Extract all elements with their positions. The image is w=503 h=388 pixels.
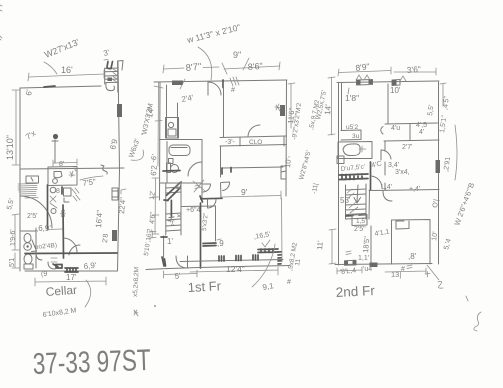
staircase rails <box>166 183 181 235</box>
dark corner marks below closet <box>222 168 231 175</box>
interior wall mid cellar <box>20 168 124 169</box>
dim 12'4" bottom <box>190 267 278 275</box>
small rect bottom wall <box>53 264 62 268</box>
tank oval <box>54 172 62 178</box>
closet row bottom line / bedroom wall <box>384 140 439 141</box>
pointer line to mark <box>425 265 439 280</box>
svg-text:3u: 3u <box>352 133 360 140</box>
svg-text:': ' <box>438 233 439 240</box>
bottom dim segments <box>337 267 426 274</box>
sink triangle <box>32 240 37 252</box>
dark wall top of stairs <box>163 170 180 173</box>
stair hook top <box>107 62 113 69</box>
hatch diagonals right <box>72 188 80 201</box>
dimension 8'7" <box>163 63 227 74</box>
svg-text:1,5: 1,5 <box>356 218 365 225</box>
door mark on top wall <box>44 86 55 87</box>
bottom left wall <box>163 236 165 266</box>
toilet lower <box>24 254 32 264</box>
flourish arc under label <box>198 47 212 80</box>
svg-text:18'5": 18'5" <box>361 236 371 254</box>
hatch groups bottom wall <box>219 255 258 261</box>
bathroom left wall <box>166 142 168 184</box>
right wall <box>438 82 440 264</box>
hall wall segments <box>384 141 386 190</box>
hatch band closet <box>339 174 368 180</box>
svg-text:#: # <box>231 87 235 94</box>
svg-text:4',5: 4',5 <box>416 122 427 129</box>
dim line 7'5 <box>80 176 103 180</box>
door arc hall <box>64 238 77 252</box>
box below stairs <box>352 215 367 226</box>
sink rect <box>168 129 176 136</box>
scribble 4a in box <box>69 168 76 177</box>
small box right of wall <box>64 188 72 196</box>
jamb marks right <box>61 187 63 194</box>
boiler left wall lower <box>47 185 49 229</box>
left room wall <box>341 83 343 131</box>
edge artifact marks left <box>0 5 2 40</box>
window dark rect 1 <box>357 80 373 86</box>
top corner mark <box>118 61 123 71</box>
small door arc left <box>36 253 42 260</box>
boiler room box <box>48 167 77 186</box>
dim 9' interior <box>222 191 281 199</box>
door arc 2 <box>69 245 80 255</box>
stairs diagonal scribbles <box>347 189 358 213</box>
door opening arc bottom <box>48 262 55 269</box>
big door arc <box>20 196 52 228</box>
stairs box second floor <box>346 184 367 219</box>
svg-text:1st Fr: 1st Fr <box>187 278 222 295</box>
svg-text:22'4": 22'4" <box>117 197 127 215</box>
post line under dot <box>52 140 58 163</box>
radiator bar <box>203 243 216 246</box>
right interior dim vertical <box>281 198 284 262</box>
svg-text:13'10": 13'10" <box>5 135 15 160</box>
bathroom partition wall <box>20 228 36 268</box>
top wall <box>337 81 439 83</box>
svg-text:16': 16' <box>61 65 73 75</box>
stair box top right <box>105 61 118 92</box>
svg-text:4'u: 4'u <box>391 125 400 132</box>
bottom door arc <box>176 256 188 268</box>
closet wall vertical <box>215 206 217 241</box>
left dim 12' 4'6 <box>152 178 159 234</box>
center hallway wall upper <box>223 82 225 137</box>
hook mark on wall <box>101 165 107 174</box>
bathroom box <box>338 142 372 159</box>
window recess box left <box>26 176 39 183</box>
window tick bottom <box>51 258 57 262</box>
column dot <box>53 134 58 139</box>
sink box left wall <box>337 156 344 164</box>
bath sink <box>169 159 174 164</box>
bottom right room <box>392 220 431 265</box>
front door arc <box>208 82 221 95</box>
circle fixture below box <box>50 187 56 193</box>
svg-text:2nd Fr: 2nd Fr <box>335 283 375 300</box>
wall below closet <box>222 167 283 168</box>
stove circle <box>168 122 173 127</box>
kitchen counter inner line <box>177 103 179 138</box>
door mark on top wall <box>172 81 183 86</box>
stair rungs <box>346 189 367 215</box>
svg-text:12'4": 12'4" <box>226 264 245 274</box>
closet band top <box>220 136 287 138</box>
bath door arc <box>188 162 202 176</box>
dimension 17' bottom <box>35 277 106 286</box>
window dark box right wall lower <box>112 230 117 241</box>
dimension 8'9" <box>338 67 391 76</box>
right dim ticks top <box>440 83 446 106</box>
svg-text:9": 9" <box>233 50 241 60</box>
star scribble <box>134 310 138 316</box>
window dark rect 2 <box>392 80 400 86</box>
center wall lower segments <box>220 146 223 199</box>
cellar bottom wall <box>25 270 118 272</box>
svg-text:8: 8 <box>56 188 60 195</box>
top wall <box>154 80 287 82</box>
svg-text:'u4: 'u4 <box>363 266 372 273</box>
cellar right wall <box>118 62 120 271</box>
swoosh from 9.1 <box>252 244 275 287</box>
delta marks <box>356 75 406 81</box>
dark blob bottom left wall <box>162 257 166 266</box>
hatched window bottom wall <box>65 268 78 272</box>
window dark rect bottom 2 <box>370 263 378 268</box>
svg-text:1': 1' <box>167 237 173 246</box>
wall under stairs <box>182 205 216 208</box>
center wall lower dark <box>200 203 202 268</box>
svg-text:3'x4,: 3'x4, <box>395 169 410 176</box>
hatched baseboard <box>258 249 278 253</box>
chimney hatch top wall <box>230 77 239 86</box>
hall door 1 leaf and arc <box>203 184 211 192</box>
svg-text:11': 11' <box>315 240 325 251</box>
kitchen appliance box <box>166 118 179 139</box>
svg-text:O'|: O'| <box>432 199 440 209</box>
interior wall top rooms <box>387 84 389 124</box>
bathroom bottom wall <box>160 182 202 184</box>
svg-text:+6"4: +6"4 <box>186 207 200 214</box>
left dim bottom <box>329 229 336 264</box>
svg-text:17': 17' <box>66 273 77 282</box>
dark tick top <box>161 236 167 238</box>
svg-text:13|: 13| <box>391 270 401 279</box>
curve right mid <box>131 150 144 160</box>
shaft hook <box>168 217 174 221</box>
dark marks stairs bottom <box>346 215 366 217</box>
stray dot <box>154 305 156 307</box>
left dim ticks bottom <box>149 231 156 238</box>
svg-text:10'-: 10'- <box>283 155 293 169</box>
window right wall upper <box>280 105 285 116</box>
circle fixture 2 <box>51 209 56 214</box>
svg-text:6,9': 6,9' <box>83 261 97 271</box>
svg-text:Cellar: Cellar <box>45 283 77 299</box>
dimension 16' top <box>28 70 104 81</box>
stairs arrow diagonals <box>167 182 181 200</box>
closet divider <box>409 124 411 141</box>
svg-text:-3'-: -3'- <box>225 139 236 146</box>
svg-text:5'1: 5'1 <box>9 258 16 267</box>
door arc hall <box>371 176 382 188</box>
right dim ticks <box>288 83 295 128</box>
hall bottom wall dark <box>201 197 222 200</box>
svg-text:1,1': 1,1' <box>358 255 369 262</box>
svg-text:10': 10' <box>390 86 401 95</box>
svg-text:3,4': 3,4' <box>388 162 399 169</box>
x scribbles <box>50 196 57 208</box>
svg-text:6'2: 6'2 <box>149 164 159 176</box>
closet band bottom <box>220 145 287 147</box>
window dark right wall <box>436 160 441 173</box>
hash marks bottom <box>346 251 412 269</box>
toilet first floor <box>171 165 179 173</box>
stair dark blob <box>108 78 113 82</box>
swoosh under label <box>44 62 57 74</box>
dimension 8'6" <box>224 62 280 70</box>
bedroom door arc top right <box>248 125 260 136</box>
dark door jamb <box>222 80 224 88</box>
faint curve right <box>455 125 457 180</box>
hall door 2 leaf and arc <box>221 182 230 191</box>
door jog shape in room <box>396 221 409 229</box>
window box right wall mid <box>112 188 118 200</box>
dim 8 above boiler box <box>53 159 77 166</box>
cross mark <box>359 146 366 152</box>
tick right of window <box>121 189 126 194</box>
svg-text:2'8: 2'8 <box>102 233 110 243</box>
svg-text:4': 4' <box>419 129 424 136</box>
dark jamb <box>200 196 203 202</box>
tub oval <box>343 144 360 156</box>
toilet upper <box>24 234 31 243</box>
closet divider <box>240 136 284 146</box>
svg-text:4'6": 4'6" <box>149 211 157 224</box>
svg-text:1'9-6': 1'9-6' <box>10 229 17 246</box>
dim 5' bottom left <box>164 270 197 278</box>
svg-text:16'4": 16'4" <box>94 210 105 229</box>
left wall <box>159 82 162 200</box>
x mark <box>178 215 181 218</box>
bathroom wall vertical <box>62 205 65 258</box>
left wall <box>338 83 340 266</box>
corner mark <box>64 198 69 202</box>
svg-text:(9: (9 <box>41 271 47 278</box>
C hook hall <box>381 127 383 135</box>
cellar top wall <box>20 86 101 88</box>
svg-text:,6,9': ,6,9' <box>36 224 51 233</box>
door arc 2 <box>381 150 391 160</box>
dark stair marks <box>164 199 168 202</box>
right wall <box>285 80 288 196</box>
svg-text:37-33 97ST: 37-33 97ST <box>32 344 151 381</box>
wall above bath <box>341 130 361 140</box>
center wall vertical <box>370 162 372 190</box>
closet row top line <box>385 123 438 124</box>
kitchen/bath divider wall <box>160 139 203 141</box>
corridor wall dark <box>25 252 117 255</box>
left dim line <box>328 77 335 135</box>
dark dash stack wall end <box>278 252 281 264</box>
bottom wall <box>335 264 432 265</box>
svg-text:12': 12' <box>149 190 157 200</box>
bathroom right wall <box>201 140 203 184</box>
arrow shaft vertical <box>170 200 172 217</box>
arrowhead <box>174 182 181 189</box>
svg-text:#: # <box>401 266 405 273</box>
hall wall with door <box>201 170 203 201</box>
svg-text:2'5': 2'5' <box>27 213 37 220</box>
banister hook bottom <box>106 84 115 91</box>
hash mark <box>195 185 200 189</box>
left dim line <box>154 82 163 166</box>
X mark <box>193 180 205 192</box>
stair diagonals <box>113 69 117 82</box>
bottom wall living room <box>180 260 283 262</box>
svg-text:3'6": 3'6" <box>406 64 421 75</box>
cellar left wall <box>19 88 21 271</box>
door below wall leaf and arc <box>208 199 217 208</box>
svg-text:8'7": 8'7" <box>185 61 202 74</box>
down arrow <box>354 185 361 203</box>
dimension 13'10" left <box>12 90 20 165</box>
svg-text:8'6": 8'6" <box>247 61 263 72</box>
toilet bowl circle <box>24 243 32 251</box>
svg-text:,8': ,8' <box>408 252 417 261</box>
star mark <box>275 104 281 111</box>
svg-text:CLO: CLO <box>249 139 262 146</box>
dimension 3'6" <box>394 68 436 75</box>
window dark rect bottom 1 <box>345 260 357 265</box>
svg-text:1'8": 1'8" <box>345 93 359 103</box>
svg-text:,9: ,9 <box>217 239 224 248</box>
svg-text:8'9": 8'9" <box>355 61 370 73</box>
bathtub <box>169 145 190 156</box>
staircase rungs <box>166 187 181 231</box>
squiggle bottom right <box>466 296 481 331</box>
ground line <box>146 266 290 270</box>
wall mid horizontal <box>369 190 439 191</box>
dim marks left lower <box>12 214 19 268</box>
paren swoosh after Cellar <box>85 280 91 307</box>
small mark <box>438 281 443 288</box>
svg-text:2'5": 2'5" <box>354 226 366 233</box>
svg-text:9': 9' <box>241 187 248 197</box>
horizontal hatching left <box>18 184 38 199</box>
window dark box right wall upper <box>117 104 122 117</box>
door arc below wall <box>383 191 392 201</box>
svg-text:#: # <box>287 279 291 286</box>
svg-text:2'7': 2'7' <box>402 144 412 151</box>
tank circle 2 <box>53 179 58 184</box>
kitchen counter edge <box>166 85 168 138</box>
window right wall lower <box>281 166 286 179</box>
svg-text:u5'2: u5'2 <box>346 124 358 131</box>
